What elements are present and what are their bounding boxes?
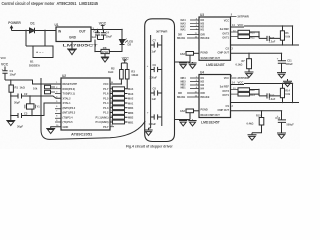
capacitor C14 100uF [147,112,162,127]
svg-text:C2: C2 [24,92,28,96]
wire OUT1 driver2 [231,110,282,112]
resistor R7 [236,53,252,68]
wire pullups to rows [121,79,127,89]
svg-text:5: 5 [56,101,57,103]
wire POWER to diode D1 [12,30,30,32]
svg-text:M2: M2 [201,80,205,83]
svg-text:C8: C8 [153,87,157,91]
ground R8 [101,54,109,62]
svg-text:VCC: VCC [224,20,229,23]
regulator U1 LM7805 [55,23,100,47]
capacitor C4 10uF [101,30,113,40]
pin stubs MCU left [55,84,61,122]
svg-text:M1: M1 [201,29,205,32]
svg-text:CS: CS [226,105,230,108]
resistor R9 rxd [33,85,61,90]
wire driver1 VCC rail top [231,23,293,45]
svg-text:READ CMP OUT: READ CMP OUT [201,114,221,117]
svg-text:P1.6: P1.6 [103,92,109,96]
capacitor C10 2.2uF [259,36,280,44]
svg-text:10k: 10k [33,86,38,90]
svg-text:1kΩ: 1kΩ [108,70,114,74]
svg-text:OUT2: OUT2 [222,32,229,35]
svg-text:XTAL1: XTAL1 [63,101,72,105]
svg-text:GS3: GS3 [180,110,185,113]
ground driver2 sgnd [188,120,196,126]
svg-text:(INT1)P3.3: (INT1)P3.3 [63,111,76,115]
svg-text:TXD(P3.1): TXD(P3.1) [63,92,75,96]
wire OUT1 driver1 [231,52,281,54]
svg-text:P1.4: P1.4 [103,101,109,105]
svg-text:U3: U3 [200,13,204,17]
svg-text:XTAL2: XTAL2 [63,96,72,100]
svg-text:7: 7 [56,111,57,113]
resistor network row3 P1.5 [110,96,134,100]
svg-text:C11: C11 [287,59,292,62]
wire regulator OUT to VCC rail [91,29,122,31]
svg-text:0.6k: 0.6k [285,36,290,39]
svg-text:P1.0(AIN0): P1.0(AIN0) [96,120,109,124]
frame border left [41,78,145,139]
wire MCU VCC row to pullups [110,83,121,85]
svg-text:36TPWR: 36TPWR [237,15,248,19]
svg-text:330uF: 330uF [150,76,158,80]
svg-text:+ ~ -: + ~ - [36,51,44,55]
svg-text:MB3: MB3 [128,112,134,115]
resistor R12 dacref [231,88,256,92]
resistor network row1 P1.7 [110,87,134,91]
svg-text:MB2: MB2 [128,117,134,120]
ground driver1 pgnd [179,62,187,68]
svg-text:DIR: DIR [178,35,182,37]
svg-text:AT89C2051: AT89C2051 [57,1,77,6]
capacitor C13 500uF [275,111,294,128]
capacitor C2 30pF [11,92,61,104]
ground R15 [248,125,262,140]
polarity marks [2,30,279,118]
svg-text:CMP OUT: CMP OUT [218,51,230,54]
svg-text:LMD18245T: LMD18245T [206,63,226,67]
ground regulator [67,49,77,55]
bridge rectifier B1 [26,46,53,68]
svg-text:VCC: VCC [238,23,244,27]
svg-text:C10: C10 [270,37,275,40]
capacitor C3 30pF [11,96,61,128]
ground crystal [6,116,15,126]
svg-text:500uF: 500uF [286,63,294,66]
svg-text:MA3: MA3 [128,93,134,96]
LED D2 [120,30,134,52]
ground driver2 pgnd [179,120,187,126]
crystal Y1 [25,96,40,116]
pin stub P3.7 [110,126,114,128]
node POWER input terminal [8,21,21,30]
svg-text:DIODEA: DIODEA [29,64,40,68]
svg-text:GND: GND [69,36,77,40]
svg-text:(T1)P3.5: (T1)P3.5 [63,120,74,124]
driver U3 LMD18245 [195,13,231,67]
svg-text:1kΩ: 1kΩ [20,86,26,90]
svg-text:10uF: 10uF [10,73,17,77]
title text [2,1,99,6]
svg-text:U4: U4 [200,71,204,75]
svg-text:6: 6 [56,106,57,108]
svg-text:470Ω: 470Ω [102,51,108,54]
resistor network row2 P1.6 [110,92,134,96]
svg-text:BRAKE: BRAKE [177,37,186,40]
capacitor C7 1uF [151,39,162,54]
svg-text:D2: D2 [128,43,132,47]
svg-text:MA1: MA1 [128,102,134,105]
connector J2 36V power [145,19,175,142]
node junction dots misc [10,25,293,116]
svg-text:RXD(P3.0): RXD(P3.0) [63,87,76,91]
svg-text:Fig.4 circuit of stepper driv: Fig.4 circuit of stepper driver [126,145,173,149]
svg-text:U2: U2 [62,74,66,78]
svg-text:100uF: 100uF [149,122,157,126]
svg-text:C12: C12 [270,94,275,97]
capacitor C12 2.2uF [259,93,280,101]
svg-text:2.2uF: 2.2uF [269,98,276,101]
ground connector [144,128,152,135]
svg-text:30pF: 30pF [14,101,20,105]
wire LED to R8 [109,45,122,52]
svg-text:1uF: 1uF [92,35,97,39]
svg-text:CS: CS [226,47,230,50]
capacitor C8 1uF [151,87,162,102]
svg-text:LMD18245: LMD18245 [79,1,98,6]
node VCC rail [99,22,107,30]
caption text below frame [126,145,173,149]
resistor network row6 P1.2 [110,111,134,115]
svg-text:D1: D1 [30,21,34,25]
svg-text:PGND: PGND [201,52,208,55]
driver U4 LMD18245 [195,71,231,125]
ground C11 [277,70,286,78]
svg-text:BRAKE: BRAKE [201,37,210,40]
resistor network row7 P1.1 [110,115,134,119]
svg-text:C7: C7 [153,39,157,43]
svg-text:P1.2: P1.2 [103,111,109,115]
svg-text:VCC: VCC [103,82,109,86]
svg-text:1uF: 1uF [152,50,157,54]
wire reset node [11,80,61,84]
MCU U2 AT89C2051 [61,74,110,136]
wire OUT2 driver1 [231,45,300,51]
svg-text:8: 8 [56,115,57,117]
wire caps common [95,40,104,52]
svg-text:PGND: PGND [201,109,208,112]
svg-text:LMD18245T: LMD18245T [201,120,221,124]
capacitor C5 1uF [92,30,101,40]
capacitor driver2 sense [175,109,200,120]
svg-text:30pF: 30pF [17,124,23,128]
wire driver2 input stubs with net labels [181,77,200,90]
resistor network row8 P1.0 [110,120,134,124]
svg-text:MB1: MB1 [181,87,187,90]
resistor R11 [231,32,260,39]
svg-text:(INT0)P3.2: (INT0)P3.2 [63,106,76,110]
svg-text:10kΩ: 10kΩ [131,73,139,77]
svg-text:GND: GND [63,125,69,129]
svg-text:AT89C2051: AT89C2051 [71,131,93,136]
wire driver1 DIR BRAKE stubs [177,35,199,41]
svg-text:6.4kΩ: 6.4kΩ [247,122,254,125]
svg-text:VCC: VCC [1,56,7,60]
svg-text:0.6k: 0.6k [285,93,290,96]
svg-text:P1.3: P1.3 [103,106,109,110]
svg-text:VCC: VCC [1,62,9,66]
ground MCU GND pin [46,127,61,134]
svg-text:C3: C3 [24,112,28,116]
node VCC pullups [121,56,129,69]
svg-text:M4: M4 [201,87,205,90]
wire driver1 input stubs with net labels [181,19,200,32]
svg-text:VCC: VCC [238,81,244,85]
ground driver1 sgnd [188,62,196,68]
svg-text:P3.7: P3.7 [103,125,109,129]
resistor R1 1k [9,80,26,96]
svg-text:3: 3 [56,92,57,94]
svg-text:DIR: DIR [201,92,206,95]
wire diode to regulator [35,30,57,32]
svg-text:500uF: 500uF [287,123,295,126]
svg-text:MA2: MA2 [128,98,134,101]
wire connector rails [151,35,162,128]
wire regulator GND to ground [71,42,73,50]
svg-text:POWER: POWER [8,21,21,25]
svg-text:BRAKE: BRAKE [177,96,186,99]
svg-text:GS3: GS3 [180,53,185,56]
resistor R8 470 [95,46,109,54]
svg-text:2.2uF: 2.2uF [269,41,276,44]
svg-text:MB1: MB1 [128,121,134,124]
svg-text:OUT: OUT [79,30,86,34]
svg-text:2: 2 [56,87,57,89]
node 36TPWR driver1 pin5 [231,13,249,18]
resistor R6 [280,26,290,45]
svg-text:DIR: DIR [178,93,182,95]
capacitor C11 500uF [278,53,293,70]
svg-text:R1: R1 [15,86,19,90]
svg-text:R8: R8 [103,46,107,50]
svg-text:LM7805CT: LM7805CT [63,43,100,47]
wire driver2 VCC rail [231,81,293,103]
svg-text:36TPWR: 36TPWR [237,76,248,80]
capacitor driver1 sense [175,52,200,63]
svg-text:OUT2: OUT2 [222,90,229,93]
resistor network row4 P1.4 [110,101,134,105]
wire OUT2 driver2 [231,103,300,109]
wire driver2 DIR BRAKE stubs [177,93,199,99]
resistor R14 [280,84,290,103]
resistor network row5 P1.3 [110,106,134,110]
svg-text:(T0)P3.4: (T0)P3.4 [63,115,74,119]
node 36TPWR driver2 pin5 [231,75,249,80]
diode D1 [30,21,35,33]
svg-text:U1: U1 [55,23,59,27]
resistor R15 [247,111,264,126]
svg-text:OUT1: OUT1 [222,36,229,39]
svg-text:36TPWR: 36TPWR [156,30,167,34]
ground top right driver2 [283,79,292,87]
svg-text:CMP OUT: CMP OUT [218,109,230,112]
svg-text:3uI REF: 3uI REF [220,28,230,31]
svg-text:1uF: 1uF [152,97,157,101]
svg-text:3uI REF: 3uI REF [220,86,230,89]
svg-text:P1.1(AIN1): P1.1(AIN1) [96,115,109,119]
ground R7 [245,69,254,78]
svg-text:OUT1: OUT1 [222,94,229,97]
svg-text:C9: C9 [153,63,157,67]
resistor R10 txd [45,90,62,94]
resistor R3 1k [125,69,139,79]
svg-text:BRAKE: BRAKE [201,96,210,99]
resistor R2 1k [108,67,123,79]
svg-text:SGND CMP OUT: SGND CMP OUT [201,57,221,60]
svg-text:VCC: VCC [224,77,229,80]
svg-text:R15: R15 [256,114,261,117]
svg-text:P1.7: P1.7 [103,87,109,91]
svg-text:Y1: Y1 [37,104,41,108]
svg-text:RESET/VPP: RESET/VPP [63,82,78,86]
resistor R13 [231,90,260,97]
resistor R10 dacref [231,30,256,34]
wire drops to bridge [26,31,45,47]
svg-text:Control circuit of stepper mot: Control circuit of stepper motor [2,1,55,6]
capacitor C1 10uF reset [1,62,16,80]
node junction dots on power wire [25,30,46,32]
node VCC small label [1,56,7,60]
svg-text:MA4: MA4 [128,88,134,91]
svg-text:MA1: MA1 [181,29,187,32]
svg-text:10uF: 10uF [106,35,113,39]
ground C13 [277,128,286,139]
svg-text:P1.5: P1.5 [103,96,109,100]
svg-text:6.1kΩ: 6.1kΩ [236,64,243,67]
svg-text:MB4: MB4 [128,107,134,110]
pin numbers MCU [56,82,114,127]
capacitor C9 330uF [150,63,162,80]
